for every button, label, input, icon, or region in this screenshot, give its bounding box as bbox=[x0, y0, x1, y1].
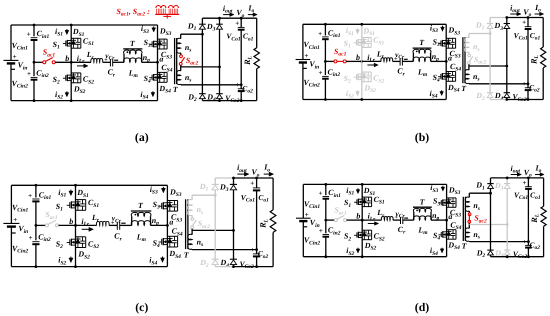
wire rectifier top rail (c) bbox=[215, 177, 233, 179]
diode D2 (a) bbox=[199, 93, 206, 95]
transformer T core (b) bbox=[462, 37, 464, 83]
diode DS3 capacitor CS3 (a) bbox=[158, 38, 168, 40]
wire Cr to transformer (d) bbox=[403, 219, 414, 221]
node a (c) bbox=[166, 224, 169, 227]
node b (b) bbox=[360, 60, 363, 63]
transformer T primary np (a) bbox=[123, 48, 142, 50]
transistor S1 (c) bbox=[67, 204, 70, 206]
transformer T core (a) bbox=[174, 38, 176, 84]
capacitor Co2 (d) bbox=[527, 242, 529, 246]
wire input cap branch upper (d) bbox=[325, 184, 327, 195]
capacitor Co1 (a) bbox=[240, 18, 242, 27]
transistor S4 (c) bbox=[159, 241, 162, 243]
wire left edge top (a) bbox=[10, 25, 12, 60]
svg-text:+: + bbox=[394, 57, 398, 63]
battery Vin (b) bbox=[296, 59, 311, 61]
wire transformer to node a (a) bbox=[142, 61, 158, 63]
svg-text:(d): (d) bbox=[415, 300, 429, 314]
diode D3 (b) bbox=[506, 18, 508, 24]
transformer secondary ns bottom (a) bbox=[180, 65, 182, 71]
diode DS1 capacitor CS1 (c) bbox=[76, 199, 86, 201]
svg-text:+: + bbox=[27, 31, 31, 39]
capacitor Cr (d) bbox=[400, 217, 402, 224]
wire bridge leg2 (b) bbox=[445, 24, 447, 99]
wire left edge top (b) bbox=[302, 24, 304, 59]
capacitor Co1 (d) bbox=[527, 178, 529, 187]
battery Vin (c) bbox=[3, 222, 19, 224]
diode D2 (d) bbox=[487, 249, 493, 251]
transistor S3 (c) bbox=[159, 205, 162, 207]
wire bridge leg1 (c) bbox=[75, 185, 77, 266]
transistor S2 (c) bbox=[67, 242, 70, 244]
transistor S1 (d) bbox=[354, 201, 357, 203]
transistor S4 (b) bbox=[438, 76, 441, 78]
diode D1 (b) bbox=[489, 18, 491, 24]
capacitor Cr (b) bbox=[399, 58, 401, 65]
wire input cap branch upper (a) bbox=[33, 25, 35, 36]
svg-text:b: b bbox=[65, 54, 69, 63]
diode D2 (c) bbox=[212, 258, 219, 260]
svg-text:+: + bbox=[304, 52, 308, 60]
diode DS1 capacitor CS1 (d) bbox=[362, 196, 371, 198]
transformer secondary ns bottom (d) bbox=[468, 223, 470, 228]
wire input cap branch middle (b) bbox=[324, 39, 326, 75]
svg-text:+: + bbox=[523, 179, 527, 187]
transformer secondary ns bottom (b) bbox=[468, 64, 470, 70]
svg-text:+: + bbox=[394, 215, 398, 221]
transistor S1 (b) bbox=[354, 42, 357, 44]
svg-text:+: + bbox=[522, 19, 526, 27]
diode D1 (d) bbox=[490, 178, 492, 184]
wire input cap branch middle (c) bbox=[35, 202, 37, 241]
switch Sac2 (a) bbox=[180, 55, 183, 58]
diode DS2 capacitor CS2 (d) bbox=[362, 229, 371, 231]
diode D4 (c) bbox=[230, 258, 237, 260]
wire bridge leg1 (b) bbox=[361, 24, 363, 99]
wire input cap branch lower (d) bbox=[325, 237, 327, 257]
wire input cap branch lower (a) bbox=[33, 80, 35, 101]
transistor S4 (d) bbox=[439, 234, 442, 236]
transistor S4 (a) bbox=[149, 77, 152, 79]
wire top rail primary (a) bbox=[11, 24, 158, 26]
resistor RL (a) bbox=[256, 18, 258, 48]
diode DS2 capacitor CS2 (b) bbox=[362, 71, 371, 73]
diode DS2 capacitor CS2 (c) bbox=[76, 236, 86, 238]
wire mid to Sac1 (d) bbox=[326, 219, 335, 221]
wire D3-D4 branch (a) bbox=[219, 29, 221, 94]
capacitor Co1 (c) bbox=[256, 178, 258, 188]
node input cap midpoint (b) bbox=[324, 60, 327, 63]
node b (a) bbox=[70, 61, 73, 64]
diode D4 (b) bbox=[504, 92, 510, 94]
wire mid to Sac1 (c) bbox=[36, 224, 46, 226]
switch Sac2 (d) bbox=[468, 213, 471, 216]
wire D1-D2 branch (d) bbox=[490, 188, 492, 250]
wire D3-D4 branch (c) bbox=[233, 190, 235, 259]
wire Sac1 to node b (a) bbox=[55, 61, 71, 63]
diode DS4 capacitor CS4 (a) bbox=[158, 71, 168, 73]
wire top rail primary (d) bbox=[303, 183, 446, 185]
wire rectifier top rail (d) bbox=[491, 177, 508, 179]
transformer T primary np (d) bbox=[413, 206, 432, 208]
diode D1 (c) bbox=[214, 178, 216, 184]
wire mid to Sac1 (b) bbox=[325, 60, 334, 62]
svg-text:+: + bbox=[522, 80, 526, 88]
capacitor Cin2 (b) bbox=[322, 75, 329, 77]
wire ns top to rectifier (b) bbox=[469, 33, 490, 35]
wire D1-D2 branch (b) bbox=[489, 29, 491, 93]
svg-text:+: + bbox=[318, 30, 322, 38]
wire D3-D4 branch (d) bbox=[506, 188, 508, 250]
capacitor Co2 (c) bbox=[256, 250, 258, 254]
wire b to Lr (b) bbox=[362, 60, 381, 62]
wire transformer to node a (c) bbox=[151, 224, 168, 226]
capacitor Cin2 (d) bbox=[323, 234, 330, 236]
wire b to Lr (c) bbox=[76, 224, 97, 226]
wire ns bottom to output (b) bbox=[468, 82, 470, 85]
svg-text:+: + bbox=[27, 70, 31, 78]
svg-text:+: + bbox=[235, 81, 239, 89]
wire bottom rail primary (a) bbox=[11, 100, 158, 102]
diode DS4 capacitor CS4 (d) bbox=[447, 229, 456, 231]
svg-text:+: + bbox=[319, 69, 323, 77]
wire Cr to transformer (a) bbox=[113, 61, 124, 63]
svg-text:+: + bbox=[319, 190, 323, 198]
svg-text:+: + bbox=[319, 227, 323, 235]
wire rectifier bottom rail (b) bbox=[490, 99, 507, 101]
inductor Lm (a) bbox=[124, 58, 142, 62]
node input cap midpoint (a) bbox=[33, 61, 36, 64]
wire rectifier top rail (b) bbox=[490, 17, 507, 19]
node input cap midpoint (d) bbox=[324, 219, 327, 222]
wire bridge leg1 (d) bbox=[361, 184, 363, 256]
capacitor Cr (a) bbox=[109, 59, 111, 66]
wire Lr to Cr (b) bbox=[393, 60, 401, 62]
inductor Lr (a) bbox=[91, 59, 103, 63]
svg-text:+: + bbox=[28, 192, 32, 200]
svg-text:+: + bbox=[13, 216, 17, 224]
node b (d) bbox=[361, 219, 364, 222]
inductor Lr (c) bbox=[96, 221, 109, 225]
capacitor Co2 (a) bbox=[240, 85, 242, 89]
wire transformer to node a (b) bbox=[431, 60, 447, 62]
diode D3 (a) bbox=[219, 18, 221, 24]
svg-text:+: + bbox=[13, 53, 17, 61]
capacitor Cin2 (c) bbox=[32, 241, 39, 243]
svg-text:+: + bbox=[523, 238, 527, 246]
transformer T primary np (c) bbox=[131, 210, 151, 212]
wire input cap branch middle (d) bbox=[325, 199, 327, 233]
svg-text:b: b bbox=[69, 217, 73, 226]
resistor RL (c) bbox=[272, 178, 274, 210]
svg-text:+: + bbox=[250, 246, 254, 254]
inductor Lm (d) bbox=[413, 216, 431, 220]
diode D4 (a) bbox=[216, 93, 223, 95]
wire top rail primary (c) bbox=[11, 184, 167, 186]
transformer secondary ns top (c) bbox=[191, 195, 193, 200]
wire Lr to Cr (c) bbox=[109, 224, 117, 226]
switch Sac2 (b) bbox=[468, 54, 471, 57]
wire Cr to transformer (c) bbox=[120, 224, 132, 226]
wire bridge leg2 (d) bbox=[446, 184, 448, 256]
resistor RL (d) bbox=[543, 178, 545, 206]
wire Cr to transformer (b) bbox=[402, 60, 413, 62]
wire Sac1 to node b (d) bbox=[347, 219, 363, 221]
diode D1 (a) bbox=[201, 18, 203, 24]
diode DS1 capacitor CS1 (b) bbox=[362, 37, 371, 39]
inductor Lm (c) bbox=[131, 221, 151, 226]
battery Vin (d) bbox=[296, 217, 311, 219]
wire rectifier bottom rail (d) bbox=[491, 256, 508, 258]
diode DS4 capacitor CS4 (c) bbox=[167, 235, 177, 237]
wire mid to Sac1 (a) bbox=[34, 61, 43, 63]
wire bottom rail primary (b) bbox=[303, 99, 446, 101]
diode DS3 capacitor CS3 (b) bbox=[446, 37, 455, 39]
transistor S2 (d) bbox=[354, 234, 357, 236]
transformer secondary ns top (d) bbox=[468, 193, 470, 197]
wire input cap branch upper (c) bbox=[35, 185, 37, 197]
wire ns top to rectifier (c) bbox=[192, 194, 215, 196]
wire top rail primary (b) bbox=[303, 23, 446, 25]
legend symbol back-to-back mosfets bbox=[156, 5, 161, 8]
inductor Lr (d) bbox=[381, 217, 393, 221]
wire b to Lr (a) bbox=[71, 61, 91, 63]
node a (b) bbox=[445, 60, 448, 63]
transistor S2 (b) bbox=[354, 76, 357, 78]
svg-text:+: + bbox=[29, 234, 33, 242]
wire rectifier bottom rail (a) bbox=[202, 100, 219, 102]
capacitor Cin2 (a) bbox=[31, 76, 38, 78]
svg-text:(b): (b) bbox=[415, 130, 429, 144]
diode D3 (d) bbox=[506, 178, 508, 184]
capacitor Cin1 (b) bbox=[322, 36, 329, 38]
switch Sac1 (a) bbox=[43, 61, 46, 64]
wire bridge leg2 (c) bbox=[166, 185, 168, 266]
wire input cap branch lower (b) bbox=[324, 79, 326, 100]
diode DS3 capacitor CS3 (d) bbox=[447, 197, 456, 199]
diode DS4 capacitor CS4 (b) bbox=[446, 71, 455, 73]
transistor S3 (a) bbox=[149, 43, 152, 45]
wire bottom rail primary (d) bbox=[303, 256, 446, 258]
capacitor Co1 (b) bbox=[527, 18, 529, 27]
wire rectifier bottom rail (c) bbox=[215, 266, 233, 268]
wire left edge top (c) bbox=[10, 185, 12, 223]
wire bottom rail primary (c) bbox=[11, 266, 167, 268]
svg-text:+: + bbox=[305, 211, 309, 219]
wire Lr to Cr (d) bbox=[393, 219, 401, 221]
node a (a) bbox=[156, 61, 159, 64]
transistor S3 (d) bbox=[439, 202, 442, 204]
wire ns bottom to output (a) bbox=[180, 83, 182, 86]
wire center tap to rectifier (a) bbox=[181, 66, 220, 68]
wire Sac1 to node b (b) bbox=[346, 60, 362, 62]
inductor Lm (b) bbox=[413, 57, 431, 61]
switch Sac1 (d) bbox=[334, 219, 337, 222]
wire ns top to rectifier (a) bbox=[181, 33, 203, 35]
switch Sac1 (c) bbox=[45, 224, 48, 227]
wire center tap to rectifier (d) bbox=[469, 224, 507, 226]
wire bridge leg1 (a) bbox=[70, 25, 72, 101]
wire input cap branch middle (a) bbox=[33, 40, 35, 76]
svg-text:+: + bbox=[250, 180, 254, 188]
inductor Lr (b) bbox=[381, 58, 393, 62]
capacitor Cin1 (d) bbox=[323, 196, 330, 198]
wire ns bottom to output (d) bbox=[468, 240, 470, 243]
diode D4 (d) bbox=[504, 249, 510, 251]
node b (c) bbox=[74, 224, 77, 227]
svg-text:b: b bbox=[356, 212, 360, 221]
wire b to Lr (d) bbox=[362, 219, 381, 221]
wire input cap branch upper (b) bbox=[324, 24, 326, 35]
transistor S2 (a) bbox=[63, 77, 66, 79]
svg-text:+: + bbox=[111, 221, 115, 227]
transformer secondary ns top (a) bbox=[180, 34, 182, 38]
wire transformer to node a (d) bbox=[431, 219, 447, 221]
svg-text:+: + bbox=[235, 19, 239, 27]
wire bridge leg2 (a) bbox=[157, 25, 159, 101]
diode D3 (c) bbox=[233, 178, 235, 184]
wire D1-D2 branch (a) bbox=[201, 29, 203, 94]
wire left edge bottom (a) bbox=[10, 63, 12, 100]
wire left edge top (d) bbox=[302, 184, 304, 218]
transformer secondary ns bottom (c) bbox=[191, 229, 193, 235]
capacitor Cin1 (a) bbox=[31, 37, 38, 39]
capacitor Co2 (b) bbox=[527, 84, 529, 88]
diode DS2 capacitor CS2 (a) bbox=[71, 72, 81, 74]
wire Sac1 to node b (c) bbox=[59, 224, 76, 226]
transformer T primary np (b) bbox=[413, 47, 432, 49]
transformer secondary ns top (b) bbox=[468, 34, 470, 38]
wire center tap to rectifier (c) bbox=[192, 229, 233, 231]
wire input cap branch lower (c) bbox=[35, 244, 37, 266]
battery Vin (a) bbox=[4, 59, 19, 61]
wire left edge bottom (c) bbox=[10, 227, 12, 267]
transistor S1 (a) bbox=[63, 43, 66, 45]
wire center tap to rectifier (b) bbox=[469, 65, 507, 67]
svg-text:b: b bbox=[356, 53, 360, 62]
wire ns bottom to output (c) bbox=[191, 248, 193, 251]
transformer T core (c) bbox=[185, 199, 187, 249]
svg-text:+: + bbox=[104, 57, 108, 63]
resistor RL (b) bbox=[542, 18, 544, 48]
wire rectifier top rail (a) bbox=[202, 17, 219, 19]
svg-text:(c): (c) bbox=[135, 300, 148, 314]
diode DS3 capacitor CS3 (c) bbox=[167, 200, 177, 202]
wire D1-D2 branch (c) bbox=[214, 190, 216, 259]
wire Lr to Cr (a) bbox=[103, 61, 111, 63]
switch Sac2 (c) bbox=[191, 218, 194, 221]
capacitor Cin1 (c) bbox=[32, 198, 39, 200]
transformer T core (d) bbox=[462, 197, 464, 241]
switch Sac1 (b) bbox=[334, 60, 337, 63]
diode D2 (b) bbox=[487, 92, 493, 94]
wire left edge bottom (b) bbox=[302, 63, 304, 100]
svg-text:(a): (a) bbox=[135, 130, 149, 144]
capacitor Cr (c) bbox=[116, 222, 118, 230]
wire D3-D4 branch (b) bbox=[506, 29, 508, 93]
node a (d) bbox=[445, 219, 448, 222]
wire ns top to rectifier (d) bbox=[469, 192, 490, 194]
transistor S3 (b) bbox=[438, 43, 441, 45]
node input cap midpoint (c) bbox=[35, 224, 38, 227]
wire left edge bottom (d) bbox=[302, 221, 304, 257]
diode DS1 capacitor CS1 (a) bbox=[71, 37, 81, 39]
